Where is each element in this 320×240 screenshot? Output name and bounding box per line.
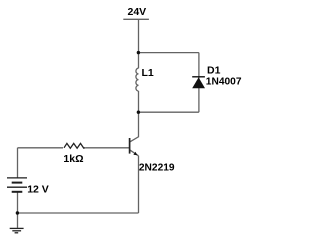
svg-text:1N4007: 1N4007 (206, 76, 242, 87)
svg-text:2N2219: 2N2219 (139, 163, 175, 174)
svg-text:12 V: 12 V (27, 183, 49, 195)
svg-text:1kΩ: 1kΩ (63, 153, 83, 165)
svg-text:D1: D1 (207, 64, 221, 76)
svg-text:L1: L1 (142, 67, 154, 79)
svg-text:24V: 24V (128, 6, 147, 18)
